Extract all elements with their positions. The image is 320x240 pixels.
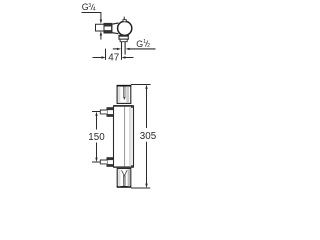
front view: upper union nut <box>107 108 114 117</box>
svg-text:3: 3 <box>88 3 91 9</box>
front view: top temperature knob <box>117 86 131 104</box>
svg-text:305: 305 <box>140 131 157 142</box>
dim 150 extension lines <box>92 111 100 113</box>
dim 47 right extension line <box>121 49 123 60</box>
valve body cone (top view) <box>112 23 119 34</box>
front view: bottom volume knob <box>117 168 131 187</box>
G1/2 arrow left of pipe <box>113 48 118 50</box>
svg-text:2: 2 <box>147 43 150 49</box>
outlet pipe (top view) <box>122 42 126 55</box>
small stem on circle top <box>123 20 126 22</box>
dim 47 right arrow <box>122 56 126 58</box>
label G3/4 <box>82 2 96 12</box>
dim 305 line with arrows <box>146 88 148 184</box>
body shading band right <box>130 107 133 167</box>
label G1/2 <box>136 39 150 49</box>
outlet collar <box>120 39 127 42</box>
outlet flange under circle <box>119 35 128 39</box>
G1/2 leader with arrow to pipe <box>126 48 130 50</box>
front view: lower union nut <box>107 158 114 167</box>
dark corner top right <box>131 106 133 108</box>
thermostat knob circle (top view) <box>118 21 132 35</box>
dim 305 extension lines <box>131 84 151 86</box>
body seam line <box>124 107 126 167</box>
inlet pipe stub (top view) <box>96 24 105 31</box>
dim 47 left arrow <box>93 57 102 59</box>
dim 47 left extension line <box>105 49 107 60</box>
front view: body column <box>113 106 133 167</box>
centerline above circle <box>123 17 125 20</box>
hex union nut (top view) <box>104 23 112 33</box>
dark corner bottom right <box>131 165 133 167</box>
front view: upper inlet stub <box>100 110 107 114</box>
leader underline for G3/4 <box>82 13 101 20</box>
svg-text:G: G <box>136 39 143 49</box>
svg-text:150: 150 <box>88 132 105 143</box>
svg-text:47: 47 <box>108 53 119 64</box>
svg-text:1: 1 <box>143 39 146 45</box>
front view: lower inlet stub <box>100 160 107 164</box>
leader line down with arrow to inlet top <box>100 20 102 24</box>
lower arrow pointing up to inlet bottom <box>100 35 102 40</box>
dim 150 line with arrows <box>96 115 98 159</box>
svg-text:4: 4 <box>93 6 96 12</box>
